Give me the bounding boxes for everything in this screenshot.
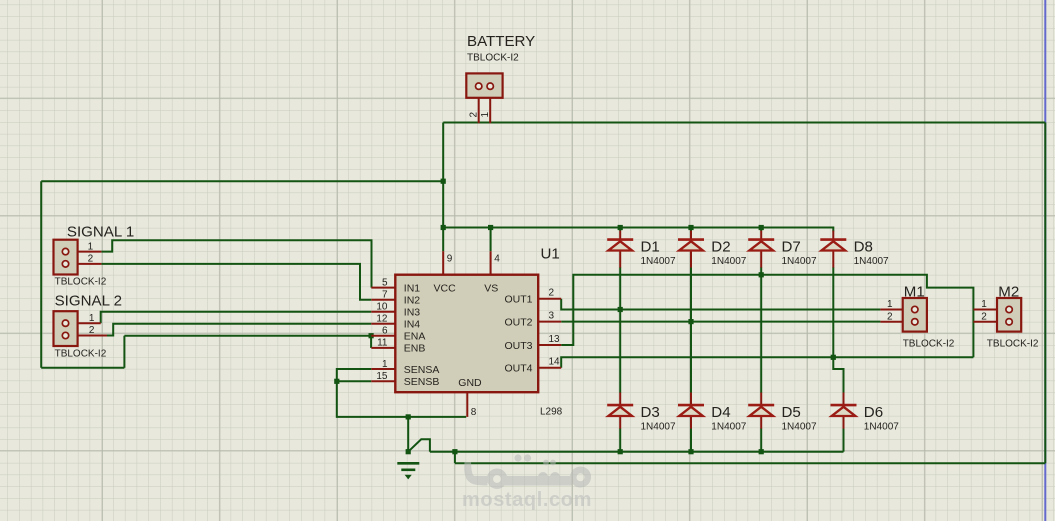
svg-text:2: 2: [549, 288, 555, 299]
svg-text:12: 12: [376, 314, 388, 325]
svg-text:GND: GND: [458, 377, 482, 389]
diode D6: [831, 405, 857, 416]
svg-text:8: 8: [471, 407, 477, 418]
D2 cathode stub: [690, 231, 692, 240]
svg-text:1N4007: 1N4007: [864, 421, 899, 432]
svg-text:OUT2: OUT2: [504, 316, 532, 328]
svg-text:TBLOCK-I2: TBLOCK-I2: [903, 339, 955, 350]
svg-text:D1: D1: [641, 239, 660, 256]
wire bottom return rail: [455, 462, 1045, 464]
svg-text:U1: U1: [541, 246, 560, 263]
D7 cathode stub: [760, 231, 762, 240]
wire ground jog diagonal: [408, 439, 430, 451]
svg-text:mostaql.com: mostaql.com: [462, 489, 592, 511]
diode D1: [607, 240, 633, 251]
svg-text:TBLOCK-I2: TBLOCK-I2: [987, 339, 1039, 350]
wire D2-D4 vertical: [690, 228, 692, 452]
svg-text:VS: VS: [484, 282, 498, 294]
svg-text:1N4007: 1N4007: [641, 421, 676, 432]
svg-text:M2: M2: [998, 283, 1019, 300]
D3 anode stub: [619, 416, 621, 428]
diode D5: [748, 405, 774, 416]
svg-text:1: 1: [887, 299, 893, 310]
svg-text:SIGNAL 2: SIGNAL 2: [55, 292, 122, 309]
pin 8 stub (U1 GND): [466, 392, 468, 417]
pin 9 stub (U1 VCC): [442, 251, 444, 275]
junction VS pin 4 / diode rail: [488, 225, 493, 230]
D1 cathode stub: [619, 231, 621, 240]
junction SENSA / SENSB: [334, 379, 339, 384]
wire OUT4 rail: [561, 357, 973, 368]
svg-text:IN3: IN3: [404, 307, 421, 319]
svg-text:13: 13: [549, 334, 561, 345]
pin 5 stub (U1 IN1): [371, 287, 395, 289]
junction ground rail / return riser: [452, 449, 457, 454]
svg-text:1: 1: [88, 241, 94, 252]
wire OUT1 to M1 pin1: [561, 299, 880, 310]
svg-text:11: 11: [377, 338, 388, 349]
svg-text:ENA: ENA: [404, 331, 426, 343]
svg-text:1N4007: 1N4007: [782, 256, 817, 267]
svg-text:SENSA: SENSA: [404, 364, 440, 376]
wire D8-D6 jog: [833, 357, 843, 393]
diode D3: [607, 405, 633, 416]
junction D4 ground rail: [688, 449, 693, 454]
wire OUT2 to M1 pin2: [561, 321, 880, 323]
svg-text:OUT1: OUT1: [504, 294, 532, 306]
wire left edge vertical: [40, 181, 42, 368]
wire OUT3 over M1 to M2: [561, 275, 973, 358]
D7 anode stub: [760, 251, 762, 268]
svg-text:5: 5: [382, 277, 388, 288]
wire D8 vertical: [832, 267, 834, 357]
pin 11 stub (U1 ENB): [371, 347, 395, 349]
junction D3 ground rail: [618, 449, 623, 454]
svg-text:1N4007: 1N4007: [782, 421, 817, 432]
wire SENSA down to ground line: [337, 369, 466, 417]
svg-text:2: 2: [468, 112, 479, 118]
ground: [397, 462, 419, 465]
D3 cathode stub: [619, 393, 621, 406]
D5 cathode stub: [760, 393, 762, 406]
svg-text:6: 6: [382, 326, 388, 337]
SIGNAL2 pin 1 stub: [78, 322, 101, 324]
wire bottom rail riser to ground rail: [454, 452, 456, 464]
svg-text:1: 1: [382, 359, 388, 370]
svg-text:1N4007: 1N4007: [711, 256, 746, 267]
svg-text:OUT4: OUT4: [504, 363, 532, 375]
junction GND pin8 line: [406, 414, 411, 419]
pin 1 stub (U1 SENSA): [371, 368, 395, 370]
M1 pin 2 stub: [880, 321, 902, 323]
wire SENSB tie: [337, 380, 372, 382]
svg-text:TBLOCK-I2: TBLOCK-I2: [467, 53, 519, 64]
svg-text:2: 2: [887, 312, 893, 323]
pin 2 stub (U1 OUT1): [538, 298, 561, 300]
wire ground drop: [407, 417, 409, 452]
connector M2 (TBLOCK-I2): [997, 298, 1021, 332]
M1 pin 1 stub: [880, 309, 902, 311]
connector M1 (TBLOCK-I2): [903, 298, 927, 332]
svg-text:D5: D5: [782, 404, 801, 421]
SIGNAL2 pin 2 stub: [78, 335, 107, 337]
svg-text:D3: D3: [641, 404, 660, 421]
svg-text:IN4: IN4: [404, 319, 421, 331]
wire diode top rail: [443, 228, 833, 232]
op-amp U1 body (L298 driver): [395, 275, 538, 393]
svg-text:3: 3: [549, 310, 555, 321]
pin 3 stub (U1 OUT2): [538, 321, 561, 323]
wire D6 bottom: [843, 428, 845, 452]
svg-text:SENSB: SENSB: [404, 376, 440, 388]
D8 anode stub: [832, 251, 834, 268]
svg-text:OUT3: OUT3: [504, 340, 532, 352]
pin 7 stub (U1 IN2): [371, 299, 395, 301]
svg-text:2: 2: [89, 325, 95, 336]
svg-text:TBLOCK-I2: TBLOCK-I2: [55, 277, 107, 288]
junction D5 ground rail: [759, 449, 764, 454]
svg-text:1: 1: [981, 299, 987, 310]
diode D4: [678, 405, 704, 416]
pin 6 stub (U1 ENA): [371, 335, 395, 337]
SIGNAL1 pin 2 stub: [78, 263, 102, 265]
wire D1-D3 vertical: [619, 228, 621, 452]
junction OUT3 / D7: [759, 272, 764, 277]
pin 15 stub (U1 SENSB): [371, 380, 395, 382]
D5 anode stub: [760, 416, 762, 428]
pin 12 stub (U1 IN4): [371, 323, 395, 325]
D6 cathode stub: [843, 393, 845, 406]
diode D7: [748, 240, 774, 251]
junction D2 top rail: [688, 225, 693, 230]
wire SIGNAL2 pin2 to IN4: [107, 324, 371, 336]
junction D7 top rail: [759, 225, 764, 230]
svg-text:1N4007: 1N4007: [711, 421, 746, 432]
svg-text:SIGNAL 1: SIGNAL 1: [67, 223, 134, 240]
wire right edge drop (battery rail to bottom rail): [1044, 123, 1046, 464]
junction OUT1 / D1: [618, 307, 623, 312]
svg-text:9: 9: [447, 254, 453, 265]
D6 anode stub: [843, 416, 845, 428]
junction D1 top rail: [618, 225, 623, 230]
M2 pin 2 stub: [973, 321, 997, 323]
M2 pin 1 stub: [973, 309, 997, 311]
pin 4 stub (U1 VS): [490, 251, 492, 275]
svg-text:D7: D7: [782, 239, 801, 256]
svg-text:L298: L298: [540, 407, 563, 418]
watermark mostaql.com: [462, 454, 592, 511]
svg-text:1: 1: [480, 112, 491, 118]
svg-text:2: 2: [88, 254, 94, 265]
diode D8: [820, 240, 846, 251]
sheet border (blue): [1044, 0, 1046, 521]
wire battery + rail (top): [443, 122, 1045, 124]
wire ENA-ENB tie: [370, 336, 372, 348]
battery pin 1 wire: [489, 98, 491, 123]
SIGNAL1 pin 1 stub: [78, 251, 102, 253]
D1 anode stub: [619, 251, 621, 268]
svg-text:10: 10: [376, 302, 388, 313]
svg-text:1: 1: [89, 313, 95, 324]
svg-text:1N4007: 1N4007: [854, 256, 889, 267]
diode D2: [678, 240, 704, 251]
junction VCC vertical / diode rail: [441, 225, 446, 230]
wire VCC vertical (battery to pin 9): [442, 123, 444, 252]
svg-text:M1: M1: [904, 283, 925, 300]
pin 14 stub (U1 OUT4): [538, 367, 561, 369]
D2 anode stub: [690, 251, 692, 268]
battery pin 2 wire: [478, 98, 480, 123]
D4 cathode stub: [690, 393, 692, 406]
junction battery feed / left net: [441, 179, 446, 184]
svg-text:BATTERY: BATTERY: [467, 33, 535, 50]
junction ENA / ENB: [369, 333, 374, 338]
wire ENA feed: [124, 335, 371, 337]
svg-text:15: 15: [376, 371, 388, 382]
wire SIGNAL1 pin1 to IN1: [101, 240, 371, 287]
connector SIGNAL2 (TBLOCK-I2): [54, 311, 78, 346]
wire D7-D5 vertical: [760, 228, 762, 452]
pin 13 stub (U1 OUT3): [538, 344, 561, 346]
junction ground symbol: [406, 449, 411, 454]
wire SIGNAL1 pin2 to IN2: [101, 264, 371, 300]
D4 anode stub: [690, 416, 692, 428]
wire ground rail (bottom diodes): [430, 451, 844, 453]
svg-text:D6: D6: [864, 404, 883, 421]
svg-text:IN1: IN1: [404, 282, 421, 294]
svg-text:IN2: IN2: [404, 295, 421, 307]
svg-text:4: 4: [494, 254, 500, 265]
junction OUT4 / D8: [831, 355, 836, 360]
svg-text:D8: D8: [854, 239, 873, 256]
connector SIGNAL1 (TBLOCK-I2): [54, 240, 78, 275]
svg-text:TBLOCK-I2: TBLOCK-I2: [55, 349, 107, 360]
svg-text:D4: D4: [711, 404, 730, 421]
pin 10 stub (U1 IN3): [371, 311, 395, 313]
wire long feed to left side at y=181: [41, 180, 443, 182]
wire SIGNAL2 pin1 to IN3: [101, 312, 372, 324]
svg-text:7: 7: [382, 290, 388, 301]
wire bottom-left run to enable riser: [41, 367, 124, 369]
junction OUT2 / D2: [688, 319, 693, 324]
connector BATTERY (TBLOCK-I2): [466, 73, 502, 97]
D8 cathode stub: [832, 231, 834, 240]
svg-text:14: 14: [549, 357, 561, 368]
wire VS drop (pin 4): [490, 228, 492, 252]
svg-text:ENB: ENB: [404, 343, 426, 355]
svg-text:1N4007: 1N4007: [641, 256, 676, 267]
wire enable riser: [123, 336, 125, 368]
svg-text:D2: D2: [711, 239, 730, 256]
svg-text:2: 2: [981, 312, 987, 323]
battery pin holes: [476, 83, 482, 89]
svg-text:VCC: VCC: [434, 282, 457, 294]
